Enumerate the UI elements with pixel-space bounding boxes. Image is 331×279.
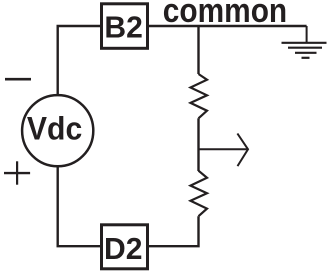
svg-text:D2: D2	[104, 231, 142, 266]
ground bar 1	[282, 42, 327, 44]
plus sign horizontal	[4, 172, 30, 174]
svg-text:B2: B2	[104, 10, 142, 45]
wire top-left corner (Vdc top to B2 left)	[58, 26, 100, 95]
wire top (B2 right to ground)	[149, 25, 307, 27]
resistor lower half of potentiometer	[191, 171, 208, 217]
svg-text:Vdc: Vdc	[27, 109, 82, 146]
ground stub	[306, 26, 308, 43]
ground bar 2	[288, 47, 322, 49]
svg-text:common: common	[163, 0, 287, 29]
box D2	[102, 225, 148, 269]
wire bottom-left corner (Vdc bottom to D2 left)	[58, 167, 100, 247]
voltage source Vdc	[22, 95, 93, 166]
ground bar 3	[295, 52, 317, 54]
minus sign	[5, 78, 31, 81]
plus sign vertical	[16, 161, 18, 184]
resistor upper half of potentiometer	[191, 74, 208, 118]
wire right vertical middle	[197, 118, 199, 171]
ground bar 4	[302, 57, 310, 59]
wire right vertical upper	[197, 26, 199, 74]
potentiometer wiper arrow	[199, 134, 249, 167]
wire bottom-right corner (potentiometer to D2 right)	[149, 216, 199, 246]
box B2	[102, 4, 148, 49]
